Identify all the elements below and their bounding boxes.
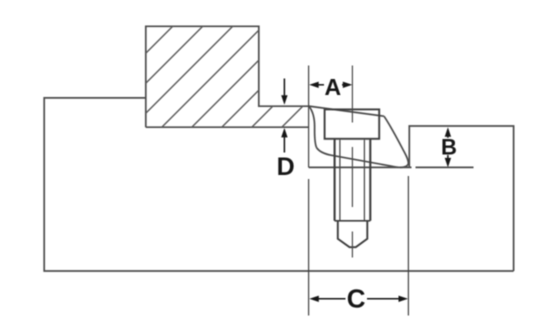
bolt tip body	[338, 221, 368, 247]
hatching	[100, 0, 460, 309]
bolt head	[325, 109, 380, 138]
svg-text:B: B	[441, 134, 457, 159]
clamp top edge	[309, 106, 384, 116]
dim D	[283, 79, 285, 97]
clamp bottom diagonal	[317, 148, 399, 168]
base plate outline	[44, 98, 513, 271]
bolt centerline	[351, 66, 353, 258]
thread line left	[339, 140, 341, 221]
dim C	[317, 298, 400, 300]
svg-text:C: C	[347, 284, 366, 314]
bolt shank left	[334, 139, 336, 221]
dim A	[317, 84, 345, 86]
clamp left edge curve	[310, 107, 317, 148]
extension line left (A/C)	[308, 66, 310, 168]
thread line right	[363, 140, 365, 221]
bolt shoulder	[335, 220, 371, 222]
svg-text:A: A	[324, 74, 341, 100]
bolt shank right	[369, 139, 371, 221]
svg-text:D: D	[277, 153, 295, 181]
right block	[409, 126, 513, 271]
seat line	[309, 166, 412, 168]
tool block bottom edge	[146, 126, 309, 128]
clamp nose (right edge)	[384, 116, 408, 167]
dim B	[447, 135, 449, 138]
tool block (hatched) outline	[146, 26, 309, 127]
extension line right (C)	[407, 176, 409, 316]
